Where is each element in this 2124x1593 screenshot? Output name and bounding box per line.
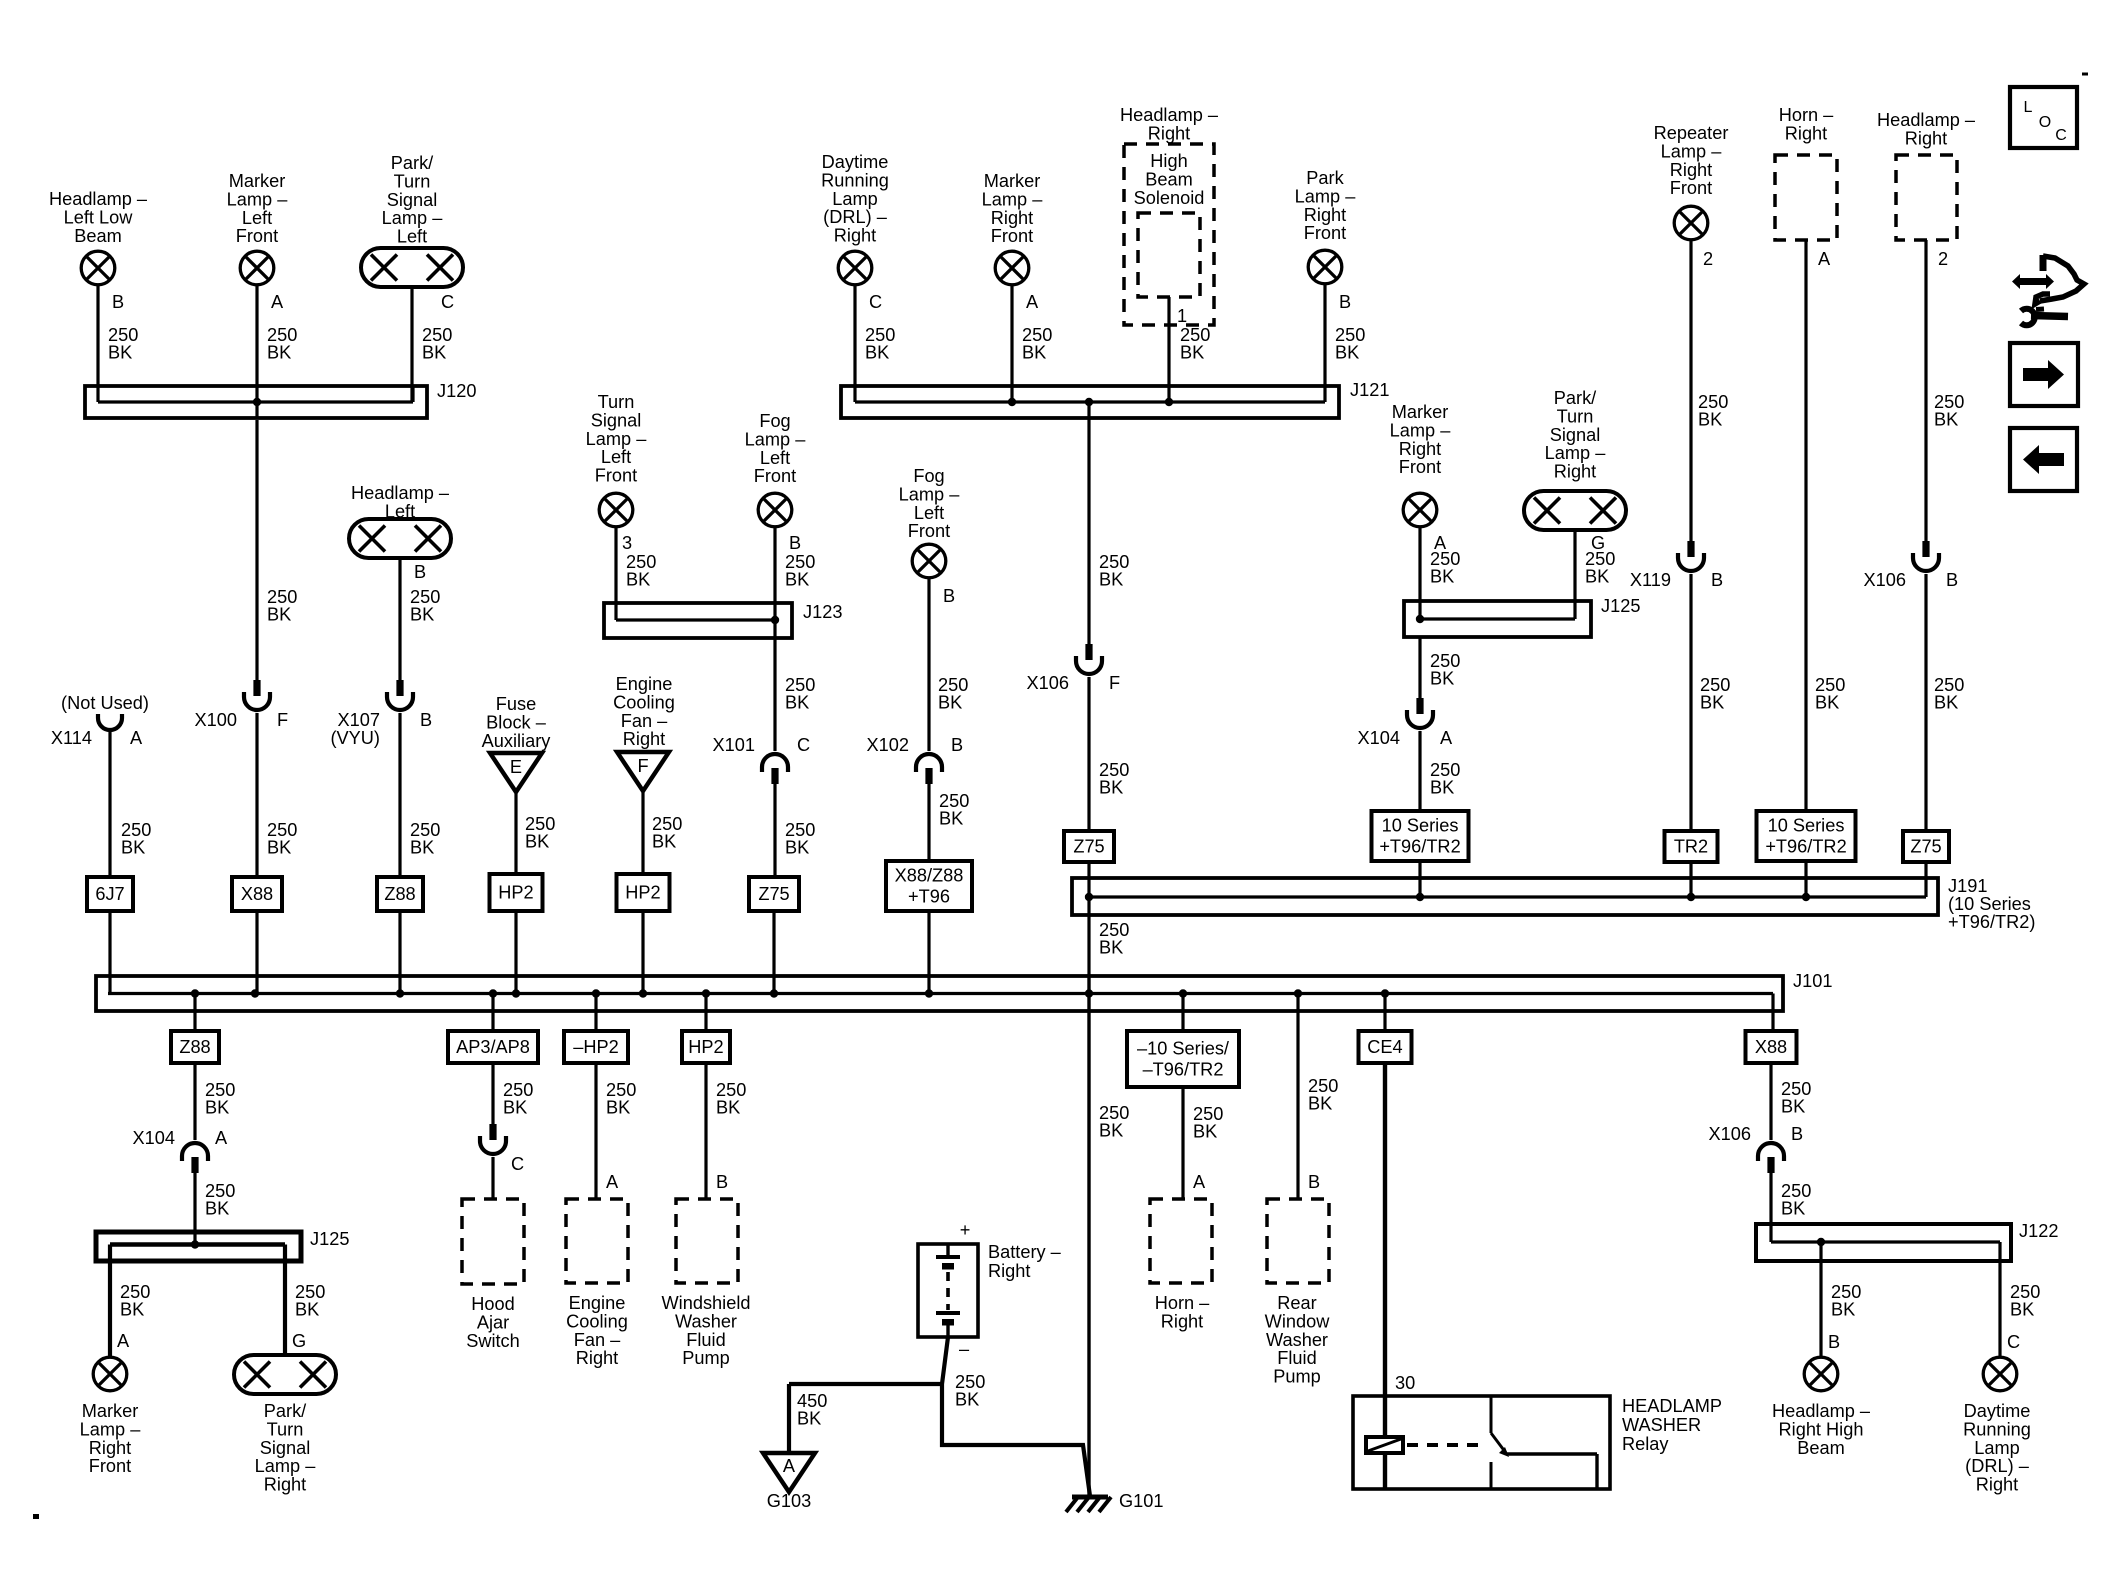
svg-text:Running: Running <box>1963 1419 2031 1439</box>
svg-text:BK: BK <box>525 832 549 852</box>
svg-text:BK: BK <box>267 838 291 858</box>
svg-text:(DRL) –: (DRL) – <box>1965 1456 2030 1476</box>
svg-text:Headlamp –: Headlamp – <box>351 483 450 503</box>
svg-text:Window: Window <box>1265 1311 1331 1331</box>
svg-text:X106: X106 <box>1864 570 1906 590</box>
svg-text:Repeater: Repeater <box>1654 123 1729 143</box>
svg-text:TR2: TR2 <box>1674 837 1708 857</box>
svg-text:F: F <box>637 756 648 776</box>
svg-text:X100: X100 <box>195 710 237 730</box>
svg-text:X107: X107 <box>338 710 380 730</box>
svg-text:Lamp: Lamp <box>832 189 878 209</box>
svg-text:Hood: Hood <box>471 1294 514 1314</box>
svg-text:Right: Right <box>834 226 876 246</box>
svg-text:HP2: HP2 <box>688 1037 723 1057</box>
svg-text:Daytime: Daytime <box>822 152 889 172</box>
svg-text:Horn –: Horn – <box>1779 105 1834 125</box>
svg-text:C: C <box>2055 127 2067 144</box>
svg-text:Lamp –: Lamp – <box>745 429 807 449</box>
svg-text:Front: Front <box>991 226 1033 246</box>
svg-text:BK: BK <box>626 570 650 590</box>
svg-text:Lamp –: Lamp – <box>255 1456 317 1476</box>
svg-text:X106: X106 <box>1709 1124 1751 1144</box>
svg-text:BK: BK <box>1193 1122 1217 1142</box>
svg-text:B: B <box>414 562 426 582</box>
svg-text:CE4: CE4 <box>1367 1037 1402 1057</box>
svg-text:B: B <box>789 533 801 553</box>
svg-text:30: 30 <box>1395 1373 1415 1393</box>
svg-text:X104: X104 <box>1358 728 1400 748</box>
svg-text:Marker: Marker <box>82 1401 139 1421</box>
svg-text:C: C <box>2007 1332 2020 1352</box>
svg-text:Headlamp –: Headlamp – <box>49 189 148 209</box>
svg-text:X104: X104 <box>133 1128 175 1148</box>
svg-text:Washer: Washer <box>675 1311 737 1331</box>
svg-text:Turn: Turn <box>1557 406 1594 426</box>
svg-text:B: B <box>1828 1332 1840 1352</box>
svg-text:Cooling: Cooling <box>566 1311 628 1331</box>
svg-text:Relay: Relay <box>1622 1434 1669 1454</box>
svg-text:BK: BK <box>1781 1199 1805 1219</box>
svg-text:(10 Series: (10 Series <box>1948 894 2031 914</box>
svg-text:BK: BK <box>1430 778 1454 798</box>
svg-text:Right: Right <box>1304 205 1346 225</box>
svg-text:+T96/TR2: +T96/TR2 <box>1765 837 1846 857</box>
svg-text:BK: BK <box>1585 567 1609 587</box>
svg-text:BK: BK <box>1308 1094 1332 1114</box>
svg-text:B: B <box>420 710 432 730</box>
svg-text:Park/: Park/ <box>391 153 434 173</box>
svg-text:Lamp: Lamp <box>1974 1438 2020 1458</box>
svg-text:Headlamp –: Headlamp – <box>1877 110 1976 130</box>
svg-text:Z75: Z75 <box>758 884 789 904</box>
svg-text:BK: BK <box>422 343 446 363</box>
svg-text:F: F <box>277 710 288 730</box>
svg-text:Signal: Signal <box>591 410 642 430</box>
svg-text:BK: BK <box>108 343 132 363</box>
svg-text:C: C <box>869 292 882 312</box>
svg-text:Running: Running <box>821 170 889 190</box>
svg-text:BK: BK <box>716 1098 740 1118</box>
svg-text:+T96: +T96 <box>908 887 950 907</box>
svg-text:A: A <box>1026 292 1039 312</box>
svg-text:3: 3 <box>622 533 632 553</box>
svg-text:A: A <box>783 1456 796 1476</box>
svg-text:Fan –: Fan – <box>621 711 668 731</box>
svg-text:Left: Left <box>601 447 631 467</box>
svg-text:Pump: Pump <box>682 1348 730 1368</box>
svg-text:BK: BK <box>410 605 434 625</box>
svg-text:AP3/AP8: AP3/AP8 <box>456 1037 530 1057</box>
svg-text:B: B <box>951 735 963 755</box>
svg-text:Signal: Signal <box>1550 425 1601 445</box>
svg-text:Cooling: Cooling <box>613 692 675 712</box>
svg-text:+T96/TR2: +T96/TR2 <box>1379 837 1460 857</box>
svg-text:BK: BK <box>295 1300 319 1320</box>
svg-text:BK: BK <box>205 1098 229 1118</box>
svg-text:Right High: Right High <box>1779 1419 1864 1439</box>
svg-text:J191: J191 <box>1948 876 1987 896</box>
svg-text:Lamp –: Lamp – <box>1390 420 1452 440</box>
svg-text:BK: BK <box>955 1390 979 1410</box>
svg-text:BK: BK <box>2010 1300 2034 1320</box>
svg-text:BK: BK <box>785 570 809 590</box>
svg-text:Right: Right <box>1554 462 1596 482</box>
svg-text:BK: BK <box>1099 570 1123 590</box>
svg-text:B: B <box>1711 570 1723 590</box>
svg-text:J101: J101 <box>1793 971 1832 991</box>
svg-text:BK: BK <box>865 343 889 363</box>
svg-text:BK: BK <box>939 809 963 829</box>
svg-text:A: A <box>606 1172 619 1192</box>
svg-text:Right: Right <box>1399 439 1441 459</box>
svg-text:BK: BK <box>120 1300 144 1320</box>
svg-text:C: C <box>511 1154 524 1174</box>
svg-text:A: A <box>215 1128 228 1148</box>
svg-text:Auxiliary: Auxiliary <box>482 731 552 751</box>
svg-text:J125: J125 <box>1601 596 1640 616</box>
svg-text:Marker: Marker <box>1392 402 1449 422</box>
svg-text:Fog: Fog <box>913 466 944 486</box>
svg-text:Z75: Z75 <box>1073 837 1104 857</box>
svg-text:J122: J122 <box>2019 1221 2058 1241</box>
svg-text:BK: BK <box>1781 1097 1805 1117</box>
svg-text:BK: BK <box>1831 1300 1855 1320</box>
svg-text:+T96/TR2): +T96/TR2) <box>1948 912 2035 932</box>
svg-text:Beam: Beam <box>74 226 122 246</box>
svg-text:–: – <box>959 1339 970 1359</box>
svg-text:B: B <box>1308 1172 1320 1192</box>
svg-text:Lamp –: Lamp – <box>899 484 961 504</box>
svg-text:B: B <box>1791 1124 1803 1144</box>
svg-text:J120: J120 <box>437 381 476 401</box>
svg-text:J123: J123 <box>803 602 842 622</box>
svg-text:X88: X88 <box>1755 1037 1787 1057</box>
svg-text:O: O <box>2039 114 2051 131</box>
svg-text:A: A <box>117 1331 130 1351</box>
svg-text:Turn: Turn <box>267 1419 304 1439</box>
svg-text:Headlamp –: Headlamp – <box>1772 1401 1871 1421</box>
svg-text:Turn: Turn <box>394 171 431 191</box>
svg-text:BK: BK <box>938 693 962 713</box>
svg-text:Right: Right <box>623 729 665 749</box>
svg-text:B: B <box>112 292 124 312</box>
svg-text:Front: Front <box>236 226 278 246</box>
svg-text:Fuse: Fuse <box>496 694 536 714</box>
svg-text:Z88: Z88 <box>179 1037 210 1057</box>
svg-text:BK: BK <box>652 832 676 852</box>
svg-text:Ajar: Ajar <box>477 1312 509 1332</box>
svg-text:BK: BK <box>1934 693 1958 713</box>
svg-text:Headlamp –: Headlamp – <box>1120 105 1219 125</box>
svg-text:Right: Right <box>1148 123 1190 143</box>
svg-text:High: High <box>1150 151 1187 171</box>
svg-text:BK: BK <box>1934 410 1958 430</box>
svg-text:BK: BK <box>785 693 809 713</box>
svg-text:Turn: Turn <box>598 392 635 412</box>
svg-text:6J7: 6J7 <box>95 884 124 904</box>
svg-text:A: A <box>271 292 284 312</box>
svg-text:Signal: Signal <box>260 1438 311 1458</box>
svg-text:B: B <box>716 1172 728 1192</box>
svg-text:C: C <box>441 292 454 312</box>
svg-text:BK: BK <box>1180 343 1204 363</box>
svg-text:BK: BK <box>1430 669 1454 689</box>
svg-text:Park/: Park/ <box>1554 388 1597 408</box>
svg-text:–HP2: –HP2 <box>573 1037 619 1057</box>
svg-text:Right: Right <box>1976 1475 2018 1495</box>
svg-text:Beam: Beam <box>1797 1438 1845 1458</box>
svg-text:WASHER: WASHER <box>1622 1415 1701 1435</box>
svg-text:Lamp –: Lamp – <box>1661 141 1723 161</box>
svg-text:(DRL) –: (DRL) – <box>823 207 888 227</box>
svg-text:2: 2 <box>1703 249 1713 269</box>
svg-text:Z75: Z75 <box>1910 837 1941 857</box>
svg-text:J121: J121 <box>1350 380 1389 400</box>
svg-text:Lamp –: Lamp – <box>1295 186 1357 206</box>
svg-text:Left: Left <box>397 227 427 247</box>
svg-text:Front: Front <box>754 466 796 486</box>
svg-text:HP2: HP2 <box>625 883 660 903</box>
svg-text:Lamp –: Lamp – <box>80 1419 142 1439</box>
svg-text:B: B <box>943 586 955 606</box>
svg-text:Left: Left <box>914 503 944 523</box>
svg-text:Park/: Park/ <box>264 1401 307 1421</box>
svg-text:B: B <box>1339 292 1351 312</box>
svg-text:Lamp –: Lamp – <box>586 429 648 449</box>
svg-text:Engine: Engine <box>616 674 673 694</box>
svg-text:Fog: Fog <box>759 411 790 431</box>
svg-text:A: A <box>1440 728 1453 748</box>
svg-text:A: A <box>130 728 143 748</box>
svg-text:X106: X106 <box>1027 673 1069 693</box>
svg-text:Front: Front <box>89 1456 131 1476</box>
svg-text:+: + <box>960 1220 971 1240</box>
svg-text:Right: Right <box>988 1261 1030 1281</box>
svg-text:(VYU): (VYU) <box>330 728 380 748</box>
svg-text:Battery –: Battery – <box>988 1242 1062 1262</box>
svg-text:Horn –: Horn – <box>1155 1293 1210 1313</box>
svg-text:Rear: Rear <box>1277 1293 1316 1313</box>
svg-text:X102: X102 <box>867 735 909 755</box>
svg-text:BK: BK <box>1335 343 1359 363</box>
svg-text:G103: G103 <box>767 1491 812 1511</box>
svg-text:G: G <box>292 1331 306 1351</box>
svg-text:Fluid: Fluid <box>686 1330 725 1350</box>
svg-text:Right: Right <box>1161 1311 1203 1331</box>
svg-text:Daytime: Daytime <box>1964 1401 2031 1421</box>
svg-text:Windshield: Windshield <box>662 1293 751 1313</box>
svg-text:Right: Right <box>991 208 1033 228</box>
svg-text:Right: Right <box>1905 128 1947 148</box>
svg-text:F: F <box>1109 673 1120 693</box>
svg-text:BK: BK <box>1099 778 1123 798</box>
svg-text:Lamp –: Lamp – <box>227 189 289 209</box>
svg-text:(Not Used): (Not Used) <box>61 693 149 713</box>
svg-text:BK: BK <box>1700 693 1724 713</box>
svg-text:10 Series: 10 Series <box>1768 816 1845 836</box>
svg-text:Front: Front <box>1670 178 1712 198</box>
svg-text:Left: Left <box>760 448 790 468</box>
svg-text:X88: X88 <box>241 884 273 904</box>
svg-text:BK: BK <box>503 1098 527 1118</box>
svg-text:BK: BK <box>1022 343 1046 363</box>
svg-text:Switch: Switch <box>466 1331 520 1351</box>
svg-text:Right: Right <box>1670 160 1712 180</box>
svg-text:B: B <box>1946 570 1958 590</box>
svg-text:Z88: Z88 <box>384 884 415 904</box>
svg-text:Marker: Marker <box>229 171 286 191</box>
svg-text:X88/Z88: X88/Z88 <box>895 866 964 886</box>
svg-text:BK: BK <box>121 838 145 858</box>
svg-text:BK: BK <box>785 838 809 858</box>
svg-text:C: C <box>797 735 810 755</box>
svg-text:1: 1 <box>1177 306 1187 326</box>
svg-text:–T96/TR2: –T96/TR2 <box>1143 1060 1224 1080</box>
svg-text:Front: Front <box>595 466 637 486</box>
svg-text:BK: BK <box>1815 693 1839 713</box>
svg-text:Lamp –: Lamp – <box>1545 443 1607 463</box>
svg-text:Fan –: Fan – <box>574 1330 621 1350</box>
svg-text:BK: BK <box>1698 410 1722 430</box>
svg-text:Front: Front <box>1399 457 1441 477</box>
svg-text:BK: BK <box>205 1199 229 1219</box>
svg-text:Right: Right <box>89 1438 131 1458</box>
svg-text:BK: BK <box>267 605 291 625</box>
svg-text:E: E <box>510 757 522 777</box>
svg-text:G101: G101 <box>1119 1491 1164 1511</box>
svg-text:BK: BK <box>797 1409 821 1429</box>
svg-text:J125: J125 <box>310 1229 349 1249</box>
svg-text:Fluid: Fluid <box>1277 1348 1316 1368</box>
svg-text:X114: X114 <box>51 728 92 748</box>
svg-text:Left: Left <box>242 208 272 228</box>
svg-text:Beam: Beam <box>1145 169 1193 189</box>
svg-text:Lamp –: Lamp – <box>982 189 1044 209</box>
svg-text:A: A <box>1818 249 1831 269</box>
svg-text:X119: X119 <box>1630 570 1671 590</box>
svg-text:Engine: Engine <box>569 1293 626 1313</box>
svg-text:Marker: Marker <box>984 171 1041 191</box>
svg-text:10 Series: 10 Series <box>1382 816 1459 836</box>
svg-text:BK: BK <box>267 343 291 363</box>
svg-text:Signal: Signal <box>387 190 438 210</box>
svg-text:Washer: Washer <box>1266 1330 1328 1350</box>
svg-text:2: 2 <box>1938 249 1948 269</box>
svg-text:Pump: Pump <box>1273 1367 1321 1387</box>
svg-text:Lamp –: Lamp – <box>382 208 444 228</box>
svg-text:L: L <box>2024 99 2033 116</box>
svg-text:Left Low: Left Low <box>64 207 134 227</box>
svg-text:Park: Park <box>1306 168 1344 188</box>
svg-text:X101: X101 <box>713 735 755 755</box>
svg-text:BK: BK <box>410 838 434 858</box>
svg-text:BK: BK <box>1099 1121 1123 1141</box>
svg-text:Right: Right <box>576 1348 618 1368</box>
svg-text:Right: Right <box>1785 123 1827 143</box>
svg-text:Front: Front <box>908 521 950 541</box>
svg-text:BK: BK <box>606 1098 630 1118</box>
svg-text:BK: BK <box>1099 938 1123 958</box>
svg-text:HP2: HP2 <box>498 883 533 903</box>
svg-text:HEADLAMP: HEADLAMP <box>1622 1396 1722 1416</box>
svg-text:Right: Right <box>264 1475 306 1495</box>
svg-text:Block –: Block – <box>486 712 547 732</box>
svg-text:Solenoid: Solenoid <box>1134 188 1205 208</box>
svg-text:A: A <box>1193 1172 1206 1192</box>
svg-text:Front: Front <box>1304 223 1346 243</box>
svg-text:–10 Series/: –10 Series/ <box>1137 1039 1230 1059</box>
svg-text:BK: BK <box>1430 567 1454 587</box>
